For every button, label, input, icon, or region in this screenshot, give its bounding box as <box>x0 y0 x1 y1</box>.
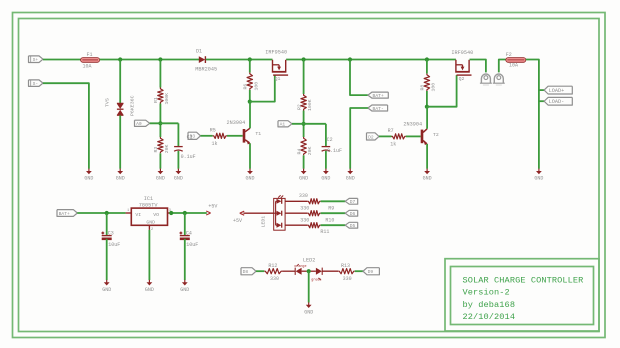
flag BAT- <box>368 105 388 112</box>
wire resistor to flag D6 <box>321 212 346 214</box>
wire flag A1 to C2 <box>292 123 326 125</box>
wire stub LOAD+ <box>539 89 544 91</box>
wire terminal 2 to F2 <box>499 60 506 73</box>
wire BAT+ to IC1 VI <box>77 212 125 214</box>
wire R2 to node A1 <box>303 111 305 138</box>
svg-text:LOAD-: LOAD- <box>549 99 565 105</box>
svg-text:TVS: TVS <box>104 98 110 107</box>
wire R6 to gate node <box>249 90 251 102</box>
svg-text:10uF: 10uF <box>186 242 198 248</box>
svg-text:BAT+: BAT+ <box>373 93 384 99</box>
svg-text:20K: 20K <box>307 146 313 155</box>
resistor R10 330 <box>300 205 334 215</box>
svg-text:GND: GND <box>145 287 154 293</box>
wire Q2 drain to terminal <box>470 60 486 73</box>
svg-text:330: 330 <box>300 217 309 223</box>
wire R1 to node A0 <box>159 104 161 138</box>
wire LED2 to R13 <box>322 270 338 272</box>
svg-text:A0: A0 <box>136 121 142 127</box>
node rail junction R6 <box>248 57 252 61</box>
flag A1 <box>278 121 292 128</box>
svg-text:R5: R5 <box>210 127 216 133</box>
svg-text:LED2: LED2 <box>303 257 315 263</box>
wire C1 to ground <box>177 151 179 169</box>
connector S- <box>29 80 44 87</box>
svg-text:D5: D5 <box>350 223 356 229</box>
resistor R2 100K <box>296 94 313 111</box>
svg-text:10uF: 10uF <box>108 242 120 248</box>
svg-text:GND: GND <box>180 287 189 293</box>
svg-text:C3: C3 <box>108 230 114 236</box>
wire LED1 row 2 to resistor <box>285 212 307 214</box>
svg-text:10A: 10A <box>509 63 518 69</box>
capacitor C3 10uF <box>101 230 120 247</box>
wire T1 emitter to ground <box>249 143 251 168</box>
ground S- <box>84 169 93 182</box>
svg-text:by deba168: by deba168 <box>463 300 516 310</box>
svg-text:D3: D3 <box>190 134 196 140</box>
flag D7 <box>345 198 358 205</box>
svg-text:GND: GND <box>146 220 155 226</box>
svg-text:D2: D2 <box>368 134 374 140</box>
ground IC1 <box>145 280 154 293</box>
svg-text:R2: R2 <box>296 104 302 110</box>
node solar rail junction TVS <box>118 57 122 61</box>
flag D5 <box>345 222 358 229</box>
node Q1 gate junction <box>248 100 252 104</box>
svg-text:A1: A1 <box>280 122 286 128</box>
flag D8 <box>241 268 256 275</box>
diode D1 MBR2045 <box>195 48 217 72</box>
svg-text:GND: GND <box>346 176 355 182</box>
svg-text:1k: 1k <box>212 141 218 147</box>
svg-text:D1: D1 <box>196 48 202 54</box>
svg-text:Q2: Q2 <box>459 76 465 82</box>
svg-text:GND: GND <box>245 176 254 182</box>
svg-text:100K: 100K <box>307 99 313 111</box>
ground C3 <box>102 280 111 293</box>
svg-text:0.1uF: 0.1uF <box>181 154 196 160</box>
wire node A0 down to C1 <box>177 123 179 146</box>
wire C3 top <box>106 213 108 235</box>
svg-text:100K: 100K <box>164 93 170 105</box>
wire R8 to gate node <box>426 91 428 107</box>
capacitor C4 10uF <box>180 230 199 247</box>
node A1 junction <box>302 122 306 126</box>
ground C2 <box>321 169 330 182</box>
ground T2 <box>423 169 432 182</box>
flag A0 <box>135 120 150 127</box>
resistor R8 100 <box>420 74 437 92</box>
wire rail to R1 <box>159 60 161 88</box>
wire F1 to D1 <box>100 59 199 61</box>
ic IC1 7805TV <box>126 196 172 232</box>
terminal battery clip 2 <box>493 74 505 85</box>
svg-text:100: 100 <box>253 82 259 91</box>
svg-text:MBR2045: MBR2045 <box>195 67 217 73</box>
svg-text:Q1: Q1 <box>275 76 281 82</box>
svg-text:GND: GND <box>534 176 543 182</box>
svg-text:0.1uF: 0.1uF <box>327 148 342 154</box>
svg-text:D9: D9 <box>368 269 374 275</box>
svg-text:P6KE36C: P6KE36C <box>130 95 136 116</box>
wire +5V to LED1 <box>243 212 273 214</box>
svg-text:330: 330 <box>299 193 308 199</box>
svg-text:330: 330 <box>270 276 279 282</box>
ground load return <box>534 169 543 182</box>
node LED2 common junction <box>307 269 311 273</box>
led array LED1 <box>261 195 286 230</box>
resistor R13 330 <box>338 263 355 282</box>
svg-text:330: 330 <box>300 205 309 211</box>
svg-text:S-: S- <box>33 81 39 87</box>
svg-text:VI: VI <box>135 212 141 218</box>
svg-text:T1: T1 <box>255 131 261 137</box>
resistor R3 20K <box>153 137 170 153</box>
connector S+ <box>29 56 44 63</box>
wire rail to R8 <box>426 60 428 74</box>
wire R13 to flag D9 <box>355 270 363 272</box>
node solar rail junction R1 <box>158 57 162 61</box>
svg-text:100: 100 <box>431 83 437 92</box>
svg-text:LOAD+: LOAD+ <box>549 88 565 94</box>
svg-text:S+: S+ <box>33 57 39 63</box>
ground T1 <box>245 169 254 182</box>
svg-text:F2: F2 <box>506 52 512 58</box>
svg-text:2N3904: 2N3904 <box>403 122 422 128</box>
suppressor TVS P6KE36C <box>104 95 135 116</box>
svg-text:LED1: LED1 <box>261 216 267 228</box>
capacitor C1 0.1uF <box>174 135 196 160</box>
svg-text:2N3904: 2N3904 <box>227 120 246 126</box>
title block <box>445 259 599 331</box>
wire rail to R2 <box>303 60 305 95</box>
ground C1 <box>174 169 183 182</box>
svg-text:GND: GND <box>84 176 93 182</box>
wire D1 to Q1 source <box>206 59 273 61</box>
svg-text:R10: R10 <box>325 217 334 223</box>
wire resistor to flag D5 <box>321 224 346 226</box>
wire S- to ground <box>43 83 89 169</box>
svg-text:C2: C2 <box>327 137 333 143</box>
svg-text:R1: R1 <box>153 97 159 103</box>
svg-text:330: 330 <box>343 276 352 282</box>
wire C4 to ground <box>184 239 186 280</box>
wire gate node to Q2 gate <box>427 75 457 107</box>
fuse F2 <box>506 52 526 68</box>
wire flag D3 to R5 <box>201 135 213 137</box>
wire C3 to ground <box>106 239 108 280</box>
ground LED2 <box>304 302 313 315</box>
svg-text:R4: R4 <box>296 149 302 155</box>
node rail junction R2 <box>302 57 306 61</box>
flag BAT+ <box>368 92 388 99</box>
svg-text:orange: orange <box>294 264 306 269</box>
svg-text:R6: R6 <box>243 84 249 90</box>
wire T2 collector to gate node <box>426 107 428 129</box>
resistor R12 330 <box>264 263 282 282</box>
svg-text:GND: GND <box>423 176 432 182</box>
ground TVS <box>116 169 125 182</box>
svg-text:IRF9540: IRF9540 <box>265 49 287 55</box>
resistor R11 330 <box>300 217 334 227</box>
resistor R7 1k <box>388 128 406 148</box>
svg-text:BAT+: BAT+ <box>59 211 70 217</box>
transistor T2 2N3904 <box>403 122 438 145</box>
svg-text:R3: R3 <box>153 147 159 153</box>
wire R5 to T1 base <box>227 135 243 137</box>
transistor Q1 IRF9540 p-mosfet <box>265 49 288 82</box>
wire TVS to ground <box>119 115 121 168</box>
wire LED2 common to ground <box>308 271 310 302</box>
wire BAT- flag to ground <box>350 108 368 169</box>
transistor Q2 IRF9540 p-mosfet <box>451 50 473 82</box>
wire IC1 GND pin to ground <box>148 230 150 280</box>
supply +5V output arrow <box>206 204 217 215</box>
flag D6 <box>345 210 358 217</box>
svg-text:+5V: +5V <box>208 204 217 210</box>
node junction C3 <box>105 211 109 215</box>
svg-text:GND: GND <box>116 176 125 182</box>
svg-text:R11: R11 <box>320 229 329 235</box>
flag D9 <box>363 268 379 275</box>
wire C2 to ground <box>325 151 327 169</box>
svg-text:D8: D8 <box>243 269 249 275</box>
node Q2 gate junction <box>425 105 429 109</box>
wire resistor to flag D7 <box>321 200 346 202</box>
wire gate node to Q1 gate <box>250 75 275 102</box>
flag LOAD- <box>544 97 572 105</box>
svg-text:C4: C4 <box>186 230 192 236</box>
svg-text:10A: 10A <box>83 64 92 70</box>
svg-text:T2: T2 <box>433 132 439 138</box>
wire flag D2 to R7 <box>379 135 392 137</box>
svg-text:VO: VO <box>153 212 159 218</box>
wire C4 top <box>184 213 186 235</box>
svg-text:BAT-: BAT- <box>373 106 384 112</box>
wire T2 emitter to ground <box>426 144 428 169</box>
svg-text:IRF9540: IRF9540 <box>451 50 473 56</box>
wire S+ to F1 <box>43 59 81 61</box>
svg-text:GND: GND <box>299 176 308 182</box>
capacitor C2 0.1uF <box>322 137 342 154</box>
resistor R1 100K <box>153 88 170 105</box>
svg-text:R8: R8 <box>420 85 426 91</box>
wire LED1 row 1 to resistor <box>285 200 307 202</box>
svg-text:20K: 20K <box>164 144 170 153</box>
svg-text:R7: R7 <box>388 128 394 134</box>
svg-text:D7: D7 <box>350 199 356 205</box>
transistor T1 2N3904 <box>227 120 262 144</box>
node junction VO <box>169 211 173 215</box>
wire R7 to T2 base <box>406 135 421 137</box>
wire rail to R6 <box>249 60 251 73</box>
ground R3 <box>156 169 165 182</box>
wire IC1 VO to +5V arrow <box>171 212 207 214</box>
wire F2 to load branch <box>526 60 539 169</box>
flag D2 <box>367 133 380 141</box>
wire LED1 row 3 to resistor <box>285 224 307 226</box>
svg-text:2: 2 <box>151 228 153 232</box>
wire T1 collector to gate node <box>249 102 251 129</box>
svg-text:D6: D6 <box>350 211 356 217</box>
svg-text:1: 1 <box>127 209 129 213</box>
wire rail to TVS <box>119 60 121 104</box>
flag D3 <box>188 132 201 140</box>
node rail junction BAT+ tap <box>348 57 352 61</box>
svg-text:F1: F1 <box>87 52 93 58</box>
wire R3 to ground <box>159 153 161 168</box>
supply +5V feed arrow <box>233 211 244 224</box>
svg-text:Version-2: Version-2 <box>463 288 510 298</box>
wire rail to BAT+ flag <box>350 60 368 96</box>
wire R12 to LED2 <box>282 270 295 272</box>
wire flag D8 to R12 <box>256 270 264 272</box>
led LED2 bicolor <box>294 257 322 282</box>
svg-text:R13: R13 <box>341 263 350 269</box>
wire R4 to ground <box>303 155 305 168</box>
resistor R5 1k <box>210 127 227 146</box>
fuse F1 <box>81 52 100 70</box>
svg-text:+5V: +5V <box>233 218 242 224</box>
svg-text:R9: R9 <box>328 205 334 211</box>
resistor R4 20K <box>296 137 313 155</box>
svg-text:GND: GND <box>156 176 165 182</box>
svg-text:GND: GND <box>321 176 330 182</box>
svg-text:green: green <box>311 278 321 283</box>
svg-text:GND: GND <box>102 287 111 293</box>
wire node A1 down to C2 <box>325 124 327 146</box>
ground BAT- <box>346 169 355 182</box>
svg-text:1k: 1k <box>390 141 396 147</box>
svg-text:IC1: IC1 <box>144 196 153 202</box>
node rail junction R8 <box>425 57 429 61</box>
wire stub LOAD- <box>539 100 544 102</box>
flag LOAD+ <box>544 86 572 94</box>
ground R4 <box>299 169 308 182</box>
terminal battery clip 1 <box>480 74 492 85</box>
wire flag A0 to C1 <box>150 122 179 124</box>
svg-text:7805TV: 7805TV <box>139 202 159 208</box>
flag BAT+ input <box>57 210 77 217</box>
svg-text:R12: R12 <box>268 263 277 269</box>
resistor R6 100 <box>243 73 260 91</box>
svg-text:GND: GND <box>174 176 183 182</box>
op rail wire Q1 drain to Q2 source <box>286 59 456 61</box>
resistor R9 330 <box>299 193 321 204</box>
node junction C4 <box>183 211 187 215</box>
svg-text:SOLAR CHARGE CONTROLLER: SOLAR CHARGE CONTROLLER <box>463 275 584 285</box>
ground C4 <box>180 280 189 293</box>
svg-text:GND: GND <box>304 309 313 315</box>
svg-text:22/10/2014: 22/10/2014 <box>463 312 516 322</box>
node A0 junction <box>158 121 162 125</box>
